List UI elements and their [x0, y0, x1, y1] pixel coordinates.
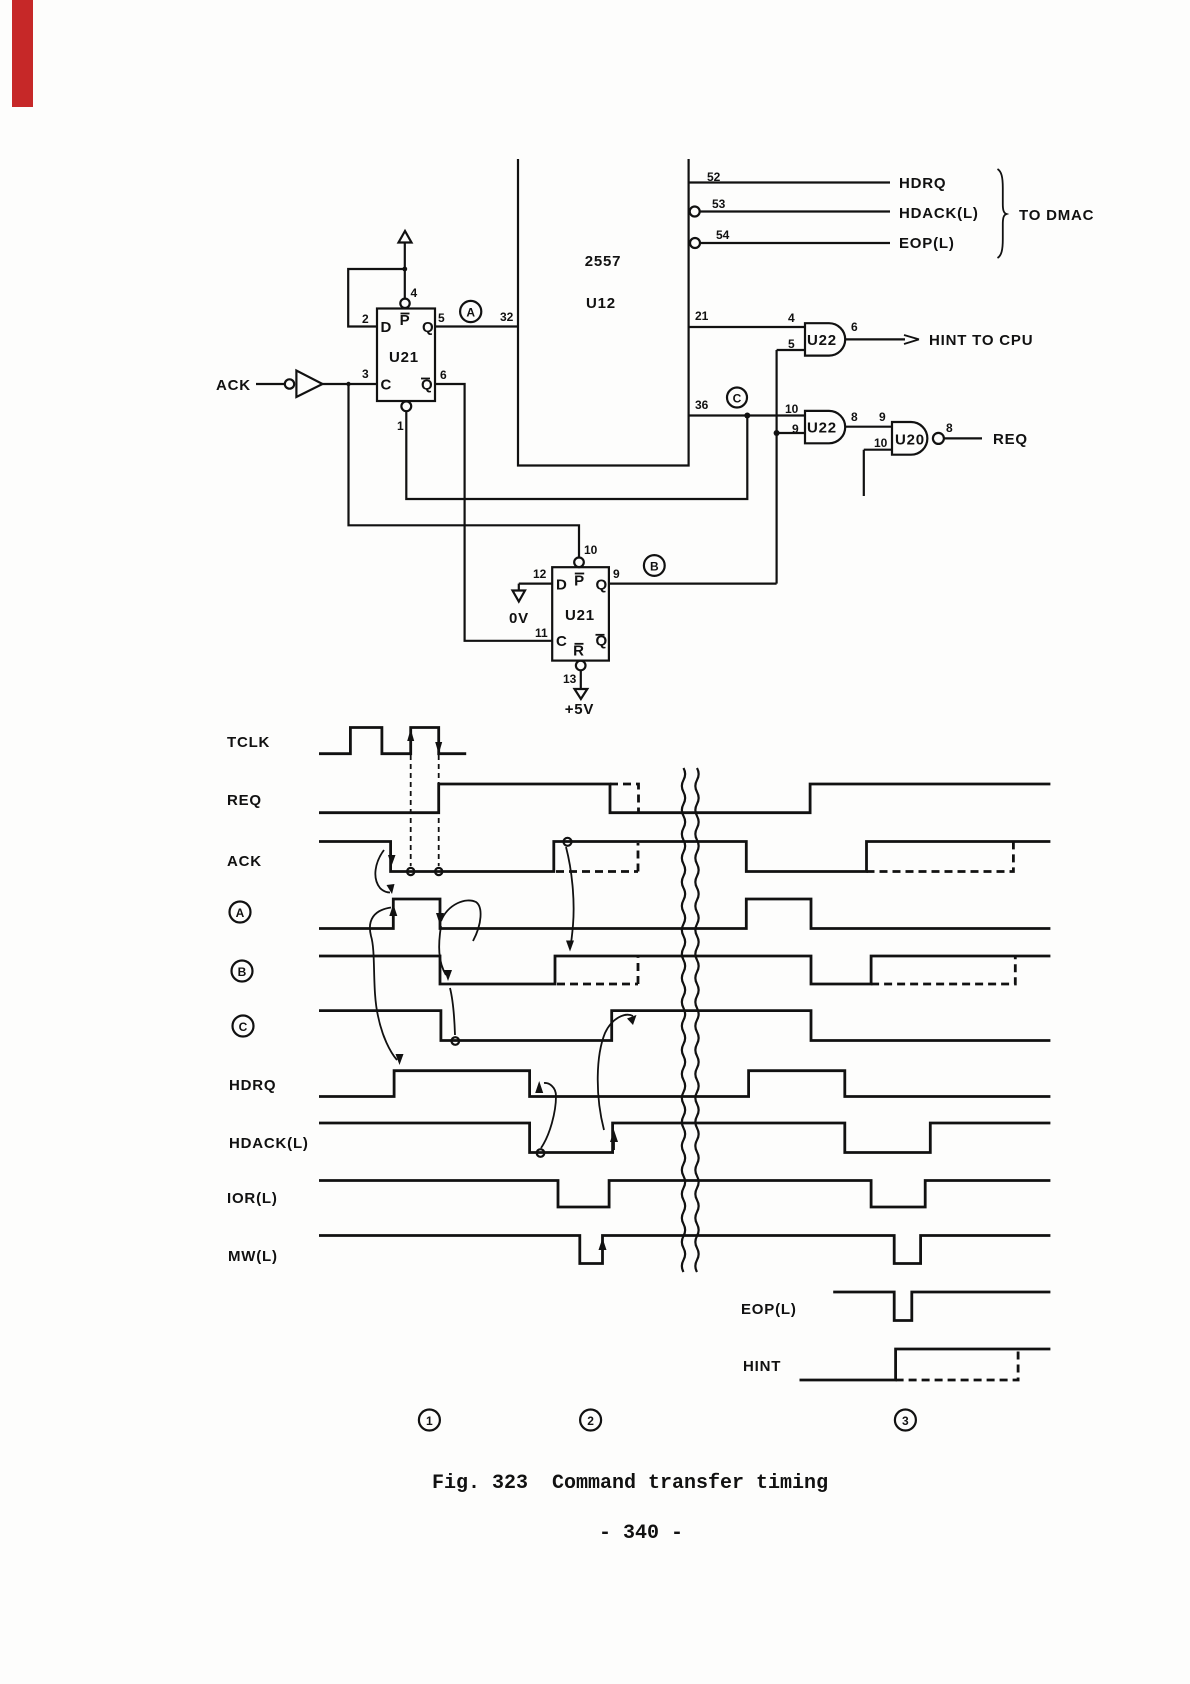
svg-text:6: 6: [440, 368, 447, 382]
svg-text:P: P: [574, 573, 585, 590]
svg-text:5: 5: [438, 311, 445, 325]
svg-text:1: 1: [426, 1414, 433, 1428]
svg-text:Q: Q: [596, 577, 608, 594]
svg-text:54: 54: [716, 228, 730, 242]
svg-text:9: 9: [879, 410, 886, 424]
svg-text:2: 2: [362, 312, 369, 326]
svg-text:HDRQ: HDRQ: [899, 175, 946, 192]
svg-text:ACK: ACK: [216, 377, 251, 394]
svg-text:REQ: REQ: [227, 792, 262, 809]
svg-text:P: P: [400, 312, 411, 329]
svg-text:HDACK(L): HDACK(L): [229, 1135, 309, 1152]
svg-text:36: 36: [695, 398, 709, 412]
svg-text:U22: U22: [807, 332, 837, 349]
svg-text:EOP(L): EOP(L): [899, 235, 955, 252]
svg-text:Fig. 323 Command transfer tim: Fig. 323 Command transfer timing: [432, 1472, 828, 1495]
svg-text:21: 21: [695, 309, 709, 323]
svg-text:R: R: [573, 643, 585, 660]
svg-text:B: B: [238, 965, 247, 979]
svg-text:13: 13: [563, 672, 577, 686]
svg-text:53: 53: [712, 197, 726, 211]
svg-text:1: 1: [397, 419, 404, 433]
svg-text:C: C: [556, 633, 568, 650]
svg-text:U22: U22: [807, 420, 837, 437]
svg-text:TCLK: TCLK: [227, 734, 270, 751]
svg-text:HDRQ: HDRQ: [229, 1077, 276, 1094]
svg-text:4: 4: [788, 311, 795, 325]
svg-text:32: 32: [500, 310, 514, 324]
svg-text:10: 10: [785, 402, 799, 416]
svg-text:MW(L): MW(L): [228, 1248, 278, 1265]
svg-text:Q: Q: [422, 319, 434, 336]
svg-text:10: 10: [874, 436, 888, 450]
svg-text:9: 9: [613, 567, 620, 581]
svg-text:D: D: [381, 319, 393, 336]
svg-text:HINT: HINT: [743, 1358, 781, 1375]
svg-text:D: D: [556, 577, 568, 594]
svg-text:0V: 0V: [509, 610, 529, 627]
svg-text:52: 52: [707, 170, 721, 184]
svg-text:C: C: [381, 377, 393, 394]
svg-text:C: C: [733, 391, 742, 405]
svg-text:- 340 -: - 340 -: [599, 1522, 683, 1545]
svg-text:3: 3: [902, 1414, 909, 1428]
svg-text:U21: U21: [389, 349, 419, 366]
svg-text:8: 8: [946, 421, 953, 435]
svg-text:IOR(L): IOR(L): [227, 1190, 278, 1207]
svg-text:+5V: +5V: [565, 701, 595, 718]
svg-text:A: A: [466, 306, 475, 320]
svg-text:C: C: [239, 1020, 248, 1034]
svg-text:REQ: REQ: [993, 431, 1028, 448]
svg-text:HDACK(L): HDACK(L): [899, 205, 979, 222]
svg-text:3: 3: [362, 367, 369, 381]
svg-text:10: 10: [584, 543, 598, 557]
svg-text:U12: U12: [586, 295, 616, 312]
svg-text:EOP(L): EOP(L): [741, 1301, 797, 1318]
svg-text:2: 2: [587, 1414, 594, 1428]
svg-text:6: 6: [851, 320, 858, 334]
svg-text:A: A: [236, 906, 245, 920]
svg-text:12: 12: [533, 567, 547, 581]
svg-text:TO DMAC: TO DMAC: [1019, 207, 1094, 224]
svg-text:2557: 2557: [585, 253, 622, 270]
svg-text:4: 4: [411, 286, 418, 300]
svg-text:ACK: ACK: [227, 853, 262, 870]
svg-text:HINT TO CPU: HINT TO CPU: [929, 332, 1033, 349]
svg-text:11: 11: [535, 626, 548, 640]
svg-text:B: B: [650, 560, 659, 574]
svg-text:U20: U20: [895, 432, 925, 449]
svg-text:U21: U21: [565, 607, 595, 624]
svg-text:8: 8: [851, 410, 858, 424]
